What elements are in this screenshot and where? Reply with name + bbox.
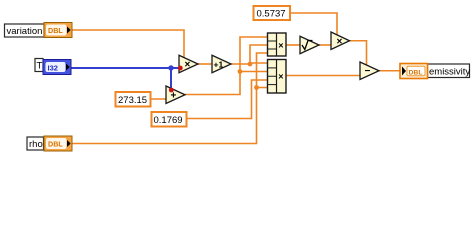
svg-text:DBL: DBL <box>48 26 63 35</box>
svg-text:+1: +1 <box>214 60 224 70</box>
svg-text:T: T <box>37 61 43 72</box>
svg-text:I32: I32 <box>48 63 58 72</box>
svg-text:emissivity: emissivity <box>429 66 470 77</box>
svg-text:rho: rho <box>29 139 43 150</box>
svg-text:DBL: DBL <box>409 69 423 76</box>
svg-text:273.15: 273.15 <box>118 95 147 106</box>
svg-text:0.5737: 0.5737 <box>257 9 286 20</box>
svg-text:×: × <box>185 60 191 71</box>
svg-text:DBL: DBL <box>48 140 63 149</box>
svg-text:×: × <box>278 41 283 51</box>
svg-text:×: × <box>337 36 343 47</box>
svg-text:−: − <box>365 66 371 77</box>
svg-text:×: × <box>278 71 283 81</box>
svg-text:0.1769: 0.1769 <box>154 115 183 126</box>
svg-text:variation: variation <box>7 26 43 37</box>
